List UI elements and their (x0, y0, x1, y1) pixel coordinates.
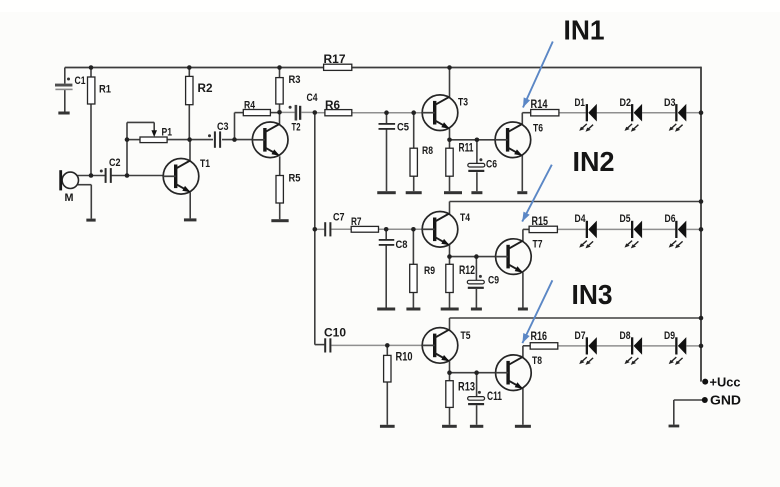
wire P1 to C3 (167, 139, 213, 141)
wire D8 to D9 (642, 345, 675, 347)
label IN2 (573, 146, 615, 177)
label IN1 (564, 15, 605, 46)
svg-text:D3: D3 (664, 97, 676, 109)
LED D2 (620, 97, 643, 132)
svg-text:C7: C7 (333, 212, 345, 224)
wire C1 to stub (64, 90, 66, 112)
svg-text:C8: C8 (396, 239, 408, 251)
svg-text:C4: C4 (307, 92, 319, 104)
wire R9 hang (412, 229, 414, 264)
svg-text:GND: GND (710, 394, 741, 408)
transistor T1 (163, 158, 210, 194)
resistor R9 (410, 264, 435, 292)
wire D4 to D5 (597, 228, 632, 230)
transistor T2 (252, 122, 300, 158)
wire R4 branch (235, 113, 244, 140)
resistor R3 (276, 74, 301, 104)
wire T2 emitter (279, 156, 281, 175)
svg-text:R17: R17 (324, 54, 346, 66)
wire R7 to T4 base (379, 228, 423, 230)
wire D3 to rail (686, 112, 701, 114)
capacitor C9 (467, 275, 499, 289)
svg-text:T7: T7 (533, 239, 543, 251)
wire R15 to D4 (557, 228, 585, 230)
wire R5 to ground (279, 203, 281, 219)
wire D1 to D2 (597, 112, 631, 114)
node C4 feed junction (313, 110, 318, 115)
wire C7 node to plates (315, 228, 325, 230)
svg-text:R5: R5 (289, 173, 301, 185)
resistor R4 (243, 100, 270, 116)
resistor R5 (276, 173, 301, 204)
wire T3 emitter (449, 129, 451, 140)
node T1 collector junction (187, 137, 192, 142)
capacitor C3 (208, 121, 229, 148)
transistor T7 (496, 239, 543, 275)
wire R6 to T3 base (352, 112, 423, 114)
resistor R14 (531, 99, 559, 116)
wire R10 hang (386, 345, 388, 355)
LED D5 (620, 213, 643, 248)
transistor T4 (422, 212, 470, 248)
svg-text:C6: C6 (486, 159, 497, 171)
capacitor C6 (468, 158, 497, 172)
node R2 top rail (187, 65, 192, 70)
node P1 left terminal (125, 137, 130, 142)
wire R11 hang (449, 140, 451, 148)
wire R4 to R3 node (270, 112, 279, 114)
ground C8 (377, 308, 395, 311)
svg-text:+Ucc: +Ucc (710, 376, 741, 390)
wire R12 hang (449, 257, 451, 265)
wire R3 bottom (279, 104, 281, 125)
transistor T5 (422, 328, 470, 364)
wire C5 to ground (386, 129, 388, 191)
svg-text:T4: T4 (460, 212, 471, 224)
LED D1 (575, 97, 597, 132)
svg-text:D6: D6 (665, 213, 676, 225)
resistor R8 (410, 145, 433, 176)
svg-text:D1: D1 (575, 97, 586, 109)
wire GND stub (674, 400, 705, 425)
wire D6 to rail (687, 228, 702, 230)
node T3 collector rail (447, 65, 452, 70)
capacitor C5 (379, 122, 410, 134)
wire C10 to T5 base (331, 344, 422, 346)
wire R13 to ground (449, 407, 451, 424)
label IN3 (572, 279, 613, 310)
svg-text:R16: R16 (531, 331, 548, 343)
svg-text:D9: D9 (664, 330, 675, 342)
wire D2 to D3 (642, 112, 675, 114)
node T3 emitter junction (447, 138, 452, 143)
wire feed to C10 (315, 344, 325, 346)
node D9 rail junction (699, 344, 704, 349)
capacitor C2 (100, 157, 121, 183)
capacitor C11 (468, 391, 503, 405)
arrow IN3 (522, 280, 552, 343)
wire C9 to ground (475, 289, 477, 308)
ground R12 (441, 308, 459, 311)
capacitor C4 (289, 92, 319, 121)
svg-text:R9: R9 (424, 265, 435, 277)
wire R10 to ground (386, 382, 388, 425)
wire R8 hang (413, 113, 415, 149)
node C11 junction (474, 370, 479, 375)
svg-text:R6: R6 (325, 100, 340, 112)
node T4 rail junction (699, 199, 704, 204)
transistor T6 (495, 122, 543, 158)
node R1 top rail (89, 65, 94, 70)
svg-text:D5: D5 (620, 213, 631, 225)
terminal GND (702, 394, 741, 408)
svg-text:T6: T6 (533, 123, 543, 135)
wire C5 hang (386, 113, 388, 124)
microphone M (59, 170, 78, 204)
ground C5 (377, 191, 396, 194)
wire row1 emitter bus (450, 139, 496, 141)
svg-text:D7: D7 (575, 330, 586, 342)
wire row3 collector rail (450, 317, 702, 319)
node R3 top rail (277, 65, 282, 70)
svg-text:R11: R11 (459, 143, 474, 155)
wire D7 to D8 (597, 345, 632, 347)
wire C6 hang (476, 140, 478, 164)
wire row2 collector rail (450, 201, 702, 203)
svg-text:R2: R2 (198, 83, 213, 95)
wire T4 emitter (449, 245, 451, 257)
wire D5 to D6 (642, 228, 675, 230)
transistor T8 (496, 355, 542, 391)
resistor R7 (351, 216, 379, 232)
resistor R15 (529, 216, 557, 233)
resistor R1 (88, 77, 112, 104)
wire D9 to rail (687, 345, 702, 347)
capacitor C8 (379, 239, 408, 251)
wire C11 to ground (476, 405, 478, 425)
resistor R6 (325, 100, 352, 116)
wire T4 collector riser (449, 202, 451, 215)
svg-text:R7: R7 (351, 216, 362, 228)
svg-text:IN1: IN1 (564, 15, 605, 46)
wire C9 hang (475, 257, 477, 281)
wire C8 to ground (385, 245, 387, 308)
wire T1 emitter (189, 192, 191, 218)
wire R1 bottom to mic node (90, 104, 92, 176)
ground R8 (406, 191, 422, 194)
svg-text:IN3: IN3 (572, 279, 613, 310)
svg-text:C9: C9 (488, 275, 499, 287)
resistor R13 (446, 381, 475, 408)
resistor R12 (446, 264, 475, 292)
resistor R17 (324, 54, 352, 70)
resistor R16 (530, 331, 558, 349)
wire R13 hang (449, 373, 451, 381)
capacitor C10 (324, 328, 346, 353)
svg-text:R3: R3 (289, 74, 301, 86)
wire C1 branch (64, 68, 66, 84)
wire feed node to R6 (315, 112, 325, 114)
wire T6 collector (522, 113, 530, 125)
wire R1 top (90, 68, 92, 78)
wire mic top terminal (78, 175, 107, 177)
svg-text:R12: R12 (459, 265, 475, 277)
wire P1 left terminal (127, 139, 140, 141)
wire row3 emitter bus (450, 372, 496, 374)
wire C11 hang (476, 373, 478, 397)
node D3 rail junction (699, 110, 704, 115)
node C7 feed junction (313, 227, 318, 232)
ground C9 (471, 308, 482, 311)
wire T7 collector (523, 229, 529, 241)
LED D7 (575, 330, 597, 365)
svg-text:D8: D8 (620, 330, 631, 342)
ground T7 (518, 308, 528, 311)
wire right +Ucc rail (700, 67, 702, 382)
LED D9 (664, 330, 686, 365)
transistor T3 (422, 95, 468, 131)
svg-text:T1: T1 (200, 158, 210, 170)
ground R11 (444, 191, 462, 194)
node C9 junction (474, 254, 479, 259)
wire R12 to ground (449, 293, 451, 308)
wire R9 to ground (412, 293, 414, 308)
wire C4 to feed node (302, 111, 315, 113)
wire T8 emitter (522, 388, 524, 424)
ground R9 (406, 308, 420, 311)
wire P1 left vertical (126, 122, 128, 175)
wire P1 wiper loop (127, 122, 154, 132)
resistor R2 (186, 76, 213, 104)
LED D8 (620, 330, 643, 365)
resistor R11 (446, 143, 474, 177)
svg-text:C2: C2 (109, 157, 121, 169)
svg-text:R14: R14 (531, 99, 548, 111)
wire C3 to T2 base (222, 139, 252, 141)
node R9 junction (411, 227, 416, 232)
node T5 emitter junction (447, 370, 452, 375)
wire R8 to ground (413, 176, 415, 191)
ground C6 (471, 191, 482, 194)
svg-text:T2: T2 (292, 122, 301, 134)
wire T1 collector (189, 140, 191, 161)
node T5 rail junction (699, 316, 704, 321)
svg-text:C5: C5 (397, 122, 409, 134)
wire R11 to ground (449, 176, 451, 191)
arrow IN2 (522, 165, 552, 222)
capacitor C7 (324, 212, 344, 237)
node R3-R4-T2 junction (277, 110, 282, 115)
node R8 junction (411, 110, 416, 115)
wire T5 collector riser (449, 318, 451, 330)
wire R16 to D7 (558, 345, 586, 347)
wire T6 emitter (521, 156, 523, 192)
wire top supply rail (65, 67, 701, 69)
svg-text:P1: P1 (162, 127, 173, 139)
wire T8 collector (523, 346, 530, 358)
node C3-R4 junction (232, 137, 237, 142)
svg-text:R10: R10 (396, 352, 413, 364)
ground C11 (470, 425, 483, 428)
node C5 junction (384, 110, 389, 115)
svg-text:M: M (65, 192, 74, 204)
ground R10 (380, 425, 395, 428)
potentiometer P1 (140, 127, 172, 143)
svg-text:R13: R13 (458, 382, 475, 394)
wire R2 top (188, 68, 190, 77)
resistor R10 (384, 352, 413, 383)
svg-text:T3: T3 (458, 97, 468, 109)
LED D4 (575, 213, 597, 248)
wire R14 to D1 (559, 112, 586, 114)
ground T1 (184, 218, 197, 221)
node C2-P1 junction (125, 173, 130, 178)
LED D6 (665, 213, 687, 248)
svg-text:D2: D2 (620, 97, 632, 109)
wire row2 emitter bus (450, 256, 496, 258)
wire C2 to T1 base (111, 175, 163, 177)
svg-text:R1: R1 (99, 84, 111, 96)
wire T5 emitter (449, 361, 451, 373)
wire C7 to R7 (331, 228, 351, 230)
capacitor C1 (55, 75, 86, 90)
svg-text:T5: T5 (461, 330, 471, 342)
wire node R3 to C4 (280, 111, 295, 113)
wire T3 collector to rail (449, 68, 451, 98)
svg-text:C1: C1 (75, 75, 86, 87)
terminal +Ucc (702, 376, 740, 390)
svg-text:R15: R15 (532, 216, 549, 228)
LED D3 (664, 97, 686, 132)
wire R2 bottom (188, 105, 190, 140)
svg-text:T8: T8 (532, 355, 542, 367)
ground mic (86, 219, 95, 222)
wire feed vertical (314, 112, 316, 344)
node R10 junction (385, 343, 390, 348)
ground R5 (271, 219, 288, 222)
node C6 junction (475, 138, 480, 143)
svg-text:R8: R8 (422, 145, 433, 157)
node D6 rail junction (699, 227, 704, 232)
wire mic ground leg (77, 185, 91, 219)
svg-text:D4: D4 (575, 213, 587, 225)
arrow IN1 (523, 42, 553, 108)
wire C6 to ground (476, 172, 478, 191)
svg-text:C3: C3 (217, 121, 229, 133)
node R1-mic junction (89, 173, 94, 178)
node C8 junction (384, 227, 389, 232)
node T4 emitter junction (447, 254, 452, 259)
svg-text:C10: C10 (324, 328, 346, 340)
wire R3 top (279, 68, 281, 78)
svg-text:R4: R4 (244, 100, 256, 112)
ground R13 (442, 425, 457, 428)
svg-text:IN2: IN2 (573, 146, 615, 177)
svg-text:C11: C11 (487, 391, 502, 403)
wire T7 emitter (522, 272, 524, 307)
ground T8 (515, 425, 531, 428)
ground T6 (517, 191, 527, 194)
wire C8 hang (385, 229, 387, 240)
ground stub C1 (58, 112, 69, 115)
ground GND stub (669, 425, 680, 428)
